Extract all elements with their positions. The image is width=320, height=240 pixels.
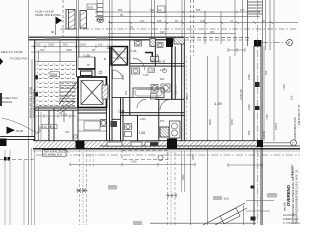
svg-text:1.09: 1.09 xyxy=(214,101,223,106)
svg-text:900: 900 xyxy=(63,43,68,47)
svg-text:1.05: 1.05 xyxy=(83,54,90,58)
svg-text:216,40 NIV PT UT: 216,40 NIV PT UT xyxy=(298,104,300,125)
svg-text:7150: 7150 xyxy=(265,114,269,120)
svg-text:-CELK P.U. 214,58: -CELK P.U. 214,58 xyxy=(0,50,23,54)
svg-text:90: 90 xyxy=(51,30,55,34)
svg-text:C. VYKRESU 12: C. VYKRESU 12 xyxy=(283,222,300,225)
svg-text:150: 150 xyxy=(290,95,294,100)
svg-text:1.90: 1.90 xyxy=(149,69,155,73)
svg-text:10400: 10400 xyxy=(274,122,278,130)
svg-text:PO VANKU KOV: PO VANKU KOV xyxy=(44,154,63,157)
svg-text:145: 145 xyxy=(200,19,205,23)
svg-text:290: 290 xyxy=(36,43,41,47)
svg-text:525: 525 xyxy=(196,8,201,12)
svg-text:2300: 2300 xyxy=(191,154,195,160)
svg-text:1415: 1415 xyxy=(143,74,149,77)
svg-text:D02: D02 xyxy=(88,5,94,9)
svg-text:1.04: 1.04 xyxy=(118,110,125,114)
svg-text:350: 350 xyxy=(264,70,268,75)
svg-text:7150: 7150 xyxy=(282,84,286,90)
svg-text:600: 600 xyxy=(160,78,165,81)
svg-text:VRUB. CISTE PODL.: VRUB. CISTE PODL. xyxy=(35,13,62,17)
svg-text:G06: G06 xyxy=(51,73,58,77)
svg-text:A4 210x297: A4 210x297 xyxy=(283,214,296,217)
svg-text:L0B: L0B xyxy=(43,126,48,129)
svg-text:5800: 5800 xyxy=(185,94,189,100)
svg-text:216,40 BPV: 216,40 BPV xyxy=(291,164,294,178)
svg-text:900: 900 xyxy=(125,90,128,95)
svg-text:2890: 2890 xyxy=(66,48,72,52)
svg-text:1.06: 1.06 xyxy=(131,49,137,53)
svg-text:±0,00: ±0,00 xyxy=(16,129,23,133)
svg-text:760: 760 xyxy=(65,131,70,134)
svg-text:9050: 9050 xyxy=(230,119,234,125)
svg-text:KOORDINACE SITE: KOORDINACE SITE xyxy=(294,117,297,140)
svg-text:-26,0: -26,0 xyxy=(223,197,230,201)
svg-text:2155: 2155 xyxy=(247,74,251,80)
svg-text:450: 450 xyxy=(40,48,45,52)
svg-text:210: 210 xyxy=(51,126,56,129)
svg-text:GSM 125: GSM 125 xyxy=(239,88,243,100)
svg-text:425 80: 425 80 xyxy=(262,131,266,139)
svg-text:825: 825 xyxy=(118,8,123,12)
svg-text:225: 225 xyxy=(157,19,162,23)
svg-text:610: 610 xyxy=(98,43,103,47)
svg-text:160: 160 xyxy=(140,19,145,23)
svg-text:5650: 5650 xyxy=(208,119,212,125)
svg-text:k1: k1 xyxy=(159,8,163,12)
svg-text:1200: 1200 xyxy=(140,118,146,121)
svg-text:875: 875 xyxy=(160,120,165,123)
svg-text:1800: 1800 xyxy=(247,104,251,110)
svg-text:1575: 1575 xyxy=(108,89,111,95)
svg-text:4100: 4100 xyxy=(131,160,137,163)
svg-text:TO CELK PLN: TO CELK PLN xyxy=(0,96,17,100)
svg-text:mb 216: mb 216 xyxy=(283,202,287,211)
svg-text:B: B xyxy=(104,57,106,61)
svg-text:593: 593 xyxy=(150,8,155,12)
svg-text:900: 900 xyxy=(247,130,251,135)
svg-text:TO CELK PLN: TO CELK PLN xyxy=(10,57,27,61)
svg-text:2300: 2300 xyxy=(182,174,185,180)
svg-text:2220 150: 2220 150 xyxy=(175,84,178,95)
svg-text:2000: 2000 xyxy=(80,43,86,47)
svg-text:1.01: 1.01 xyxy=(61,113,67,117)
svg-text:FORMAT 1:50: FORMAT 1:50 xyxy=(283,218,299,221)
svg-text:OL: OL xyxy=(152,58,156,62)
svg-text:1: 1 xyxy=(292,141,294,145)
svg-text:1.08: 1.08 xyxy=(139,131,146,135)
svg-text:280: 280 xyxy=(210,30,215,34)
svg-text:1800: 1800 xyxy=(122,74,125,80)
svg-text:430: 430 xyxy=(160,30,165,34)
svg-text:1500: 1500 xyxy=(48,43,54,47)
